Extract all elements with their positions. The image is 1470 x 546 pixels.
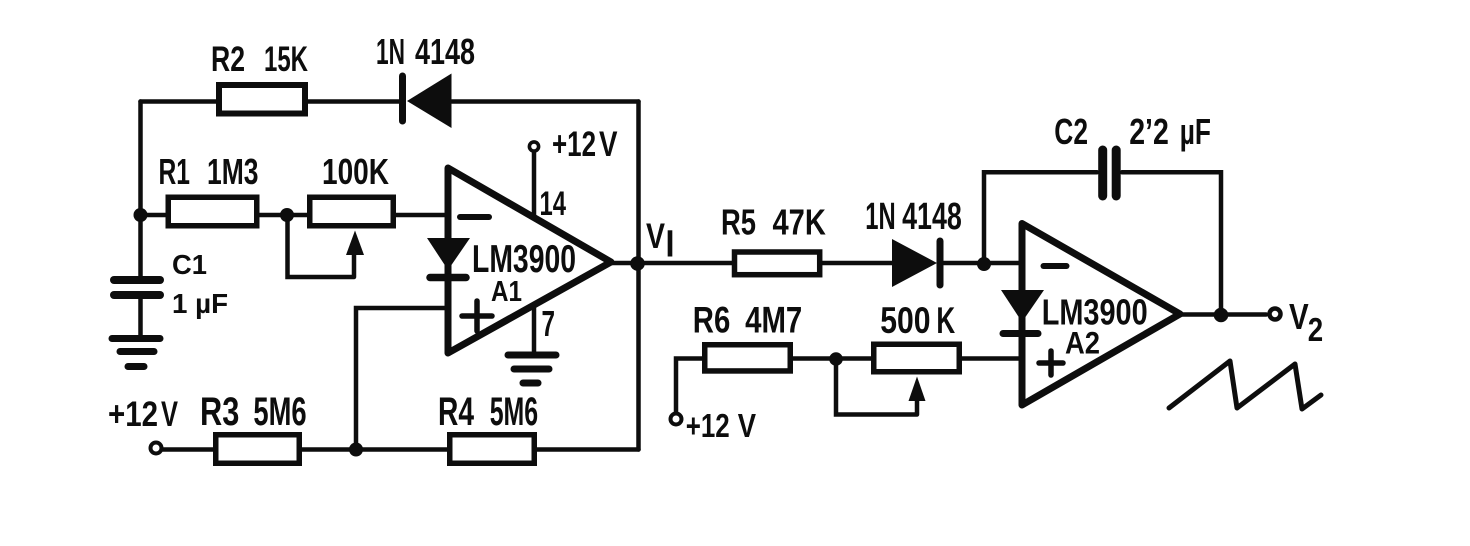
svg-text:1N: 1N — [865, 196, 895, 238]
svg-text:R2: R2 — [211, 40, 245, 79]
svg-text:+12: +12 — [108, 395, 158, 434]
svg-text:4148: 4148 — [415, 31, 475, 72]
svg-text:47K: 47K — [773, 202, 826, 243]
svg-text:R5: R5 — [721, 202, 756, 243]
svg-text:V: V — [1289, 296, 1309, 337]
svg-text:5M6: 5M6 — [490, 390, 538, 434]
svg-text:I: I — [666, 224, 675, 266]
svg-text:V: V — [738, 407, 756, 444]
svg-text:4M7: 4M7 — [745, 300, 802, 341]
svg-text:2: 2 — [1308, 311, 1323, 348]
svg-text:R4: R4 — [438, 390, 475, 434]
svg-text:A2: A2 — [1065, 325, 1100, 361]
svg-text:14: 14 — [540, 185, 567, 223]
svg-text:K: K — [936, 300, 955, 341]
svg-text:V: V — [646, 217, 666, 256]
svg-text:5M6: 5M6 — [253, 390, 306, 434]
svg-text:µF: µF — [1180, 111, 1211, 152]
svg-text:1 µF: 1 µF — [172, 288, 228, 319]
svg-text:1M3: 1M3 — [207, 151, 259, 192]
svg-text:4148: 4148 — [902, 196, 962, 238]
svg-text:V: V — [599, 125, 618, 164]
svg-text:500: 500 — [880, 300, 930, 341]
svg-text:1N: 1N — [376, 31, 405, 72]
svg-text:15K: 15K — [264, 40, 308, 79]
svg-text:R1: R1 — [159, 151, 191, 192]
svg-text:R3: R3 — [200, 390, 239, 434]
svg-text:100K: 100K — [322, 151, 389, 192]
svg-text:7: 7 — [542, 303, 556, 344]
svg-text:+12: +12 — [686, 407, 730, 444]
svg-text:+12: +12 — [552, 125, 596, 164]
svg-text:V: V — [161, 395, 178, 434]
svg-text:2’2: 2’2 — [1129, 111, 1169, 152]
svg-text:R6: R6 — [693, 300, 731, 341]
svg-text:A1: A1 — [491, 276, 522, 308]
svg-text:LM3900: LM3900 — [472, 238, 576, 281]
svg-text:C2: C2 — [1054, 111, 1088, 152]
svg-text:C1: C1 — [172, 249, 207, 280]
